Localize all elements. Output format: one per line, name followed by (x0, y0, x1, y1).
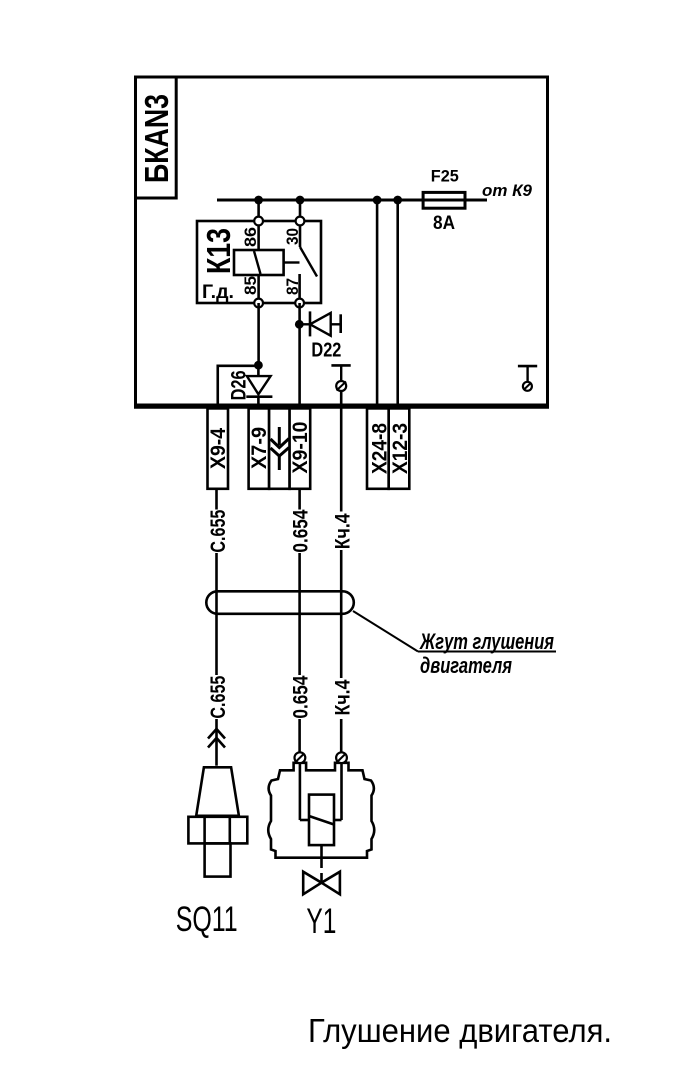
connector X24-8 (367, 408, 392, 488)
block enclosure BKAN3 (134, 77, 549, 407)
wire 0.654 through harness (298, 592, 301, 675)
Y1 coil (309, 795, 334, 846)
node D26 (254, 361, 263, 370)
relay contact link (284, 261, 300, 263)
connector X9-4 (207, 408, 230, 488)
svg-text:Кч.4: Кч.4 (331, 513, 354, 549)
wire pin85 down to node D26 (257, 303, 260, 365)
svg-text:F25: F25 (431, 167, 459, 186)
wire node D26 to X9-4 (218, 366, 259, 409)
node D22 anode (295, 320, 304, 329)
terminal symbol Kch.4 start (331, 365, 350, 391)
svg-text:Глушение двигателя.: Глушение двигателя. (308, 1012, 612, 1049)
svg-text:Х9-10: Х9-10 (289, 422, 312, 474)
terminal symbol near box corner (518, 366, 537, 391)
pin 30 terminal (296, 217, 305, 226)
power bus wire (217, 199, 487, 202)
svg-text:Жгут глушения: Жгут глушения (419, 629, 554, 654)
node bus/86 (254, 196, 263, 205)
svg-text:от К9: от К9 (482, 181, 533, 200)
fuse F25 (423, 167, 465, 235)
wire pin87 stub (298, 274, 301, 303)
svg-text:Х12-3: Х12-3 (389, 423, 412, 474)
node bus/X24-8 (373, 196, 382, 205)
relay coil K13 (234, 250, 284, 275)
svg-text:86: 86 (241, 227, 260, 247)
svg-text:SQ11: SQ11 (176, 900, 238, 939)
Y1 terminal right (336, 752, 347, 763)
harness capsule (206, 591, 353, 614)
wire bus to pin 86 (257, 200, 260, 221)
wire Kch.4 upper (340, 391, 343, 512)
pin 87 terminal (295, 299, 304, 308)
svg-text:8А: 8А (433, 213, 455, 234)
svg-text:87: 87 (283, 278, 302, 295)
wire Kch.4 lower (340, 719, 343, 753)
svg-text:БКАN3: БКАN3 (138, 94, 175, 183)
connector X9-10 (289, 408, 312, 488)
Y1 valve bowtie (303, 872, 321, 895)
svg-text:D22: D22 (311, 339, 341, 361)
Y1 terminal left (295, 752, 306, 763)
pin 85 terminal (254, 299, 263, 308)
connector X7-9 (248, 408, 271, 488)
svg-text:Кч.4: Кч.4 (331, 679, 354, 715)
splice arrow box (269, 408, 290, 488)
callout leader harness (353, 611, 556, 678)
svg-text:85: 85 (241, 276, 260, 295)
wire coil to pin85 (257, 275, 260, 303)
pin 86 terminal (254, 217, 263, 226)
wire C.655 upper (215, 489, 218, 510)
wire pin87 down to X9-10 (298, 303, 301, 409)
wire pin30 stub (299, 221, 302, 247)
svg-text:30: 30 (283, 228, 302, 245)
wire bus to X12-3 (396, 200, 399, 409)
wire C.655 through harness (215, 592, 218, 675)
node bus/X12-3 (393, 196, 402, 205)
wire Kch.4 through harness (340, 592, 343, 678)
svg-text:двигателя: двигателя (420, 653, 512, 678)
label box БКАN3 (136, 77, 177, 198)
svg-text:Х9-4: Х9-4 (207, 428, 230, 469)
wire pin86 to coil (257, 221, 260, 250)
connector X12-3 (389, 408, 413, 488)
wire bus to X24-8 (376, 200, 379, 409)
svg-text:Y1: Y1 (306, 902, 336, 941)
svg-text:К13: К13 (200, 228, 237, 274)
wire 0.654 lower (298, 719, 301, 753)
wire 0.654 upper (298, 489, 301, 510)
wire bus to pin 30 (299, 200, 302, 221)
svg-text:Х7-9: Х7-9 (248, 427, 271, 469)
relay K13 (197, 217, 321, 308)
diode D22 (299, 311, 341, 361)
pressure switch SQ11 (188, 767, 247, 876)
splice chevrons on C.655 (208, 729, 225, 748)
svg-text:D26: D26 (228, 370, 251, 400)
Y1 internal wires (299, 763, 302, 820)
solenoid valve Y1 (268, 752, 374, 894)
wire C.655 lower (215, 719, 218, 766)
relay contact blade (300, 247, 317, 277)
node bus/30 (296, 196, 305, 205)
svg-text:С.655: С.655 (207, 509, 230, 552)
diode D26 (228, 365, 273, 409)
svg-text:Г.д.: Г.д. (202, 282, 234, 303)
svg-text:0.654: 0.654 (290, 675, 313, 718)
Y1 actuator link (320, 845, 323, 858)
svg-text:0.654: 0.654 (290, 509, 313, 552)
svg-text:С.655: С.655 (207, 675, 230, 718)
